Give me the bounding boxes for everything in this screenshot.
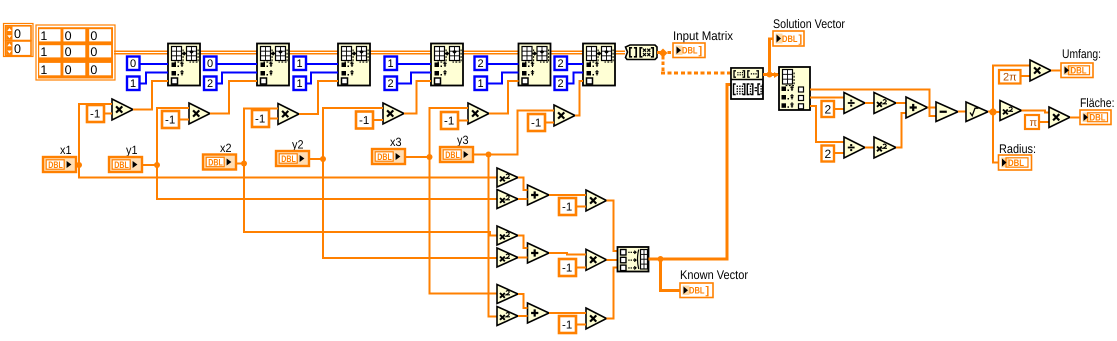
svg-text:1: 1 (297, 58, 303, 70)
x-squared node g2 bottom (497, 248, 518, 267)
svg-text:2: 2 (558, 58, 564, 70)
svg-text:0: 0 (130, 58, 136, 70)
svg-text:-1: -1 (562, 320, 572, 332)
svg-text:0: 0 (90, 29, 97, 43)
Replace Array Subset node 4 (431, 44, 463, 86)
divide node 1 (844, 93, 865, 114)
multiply node top row (3) (278, 104, 299, 125)
junction known vector (658, 256, 664, 262)
wire x2 bottom to add g3 (518, 315, 528, 317)
multiply node Umfang (1030, 60, 1051, 81)
svg-text:-1: -1 (562, 263, 572, 275)
svg-text:-1: -1 (165, 115, 175, 127)
wire 2pi to multiply (1021, 75, 1031, 77)
wire index out3 to divide2 (810, 106, 844, 142)
wire x3 out (405, 156, 430, 158)
svg-text:0: 0 (65, 63, 72, 77)
constant 2 (lower) (822, 146, 835, 162)
indicator Radius (DBL) (999, 155, 1032, 170)
wire index 4 bottom (397, 73, 431, 84)
svg-text:x2: x2 (220, 141, 232, 155)
control y1 (DBL) (109, 157, 142, 172)
wire index 1 bottom (140, 73, 169, 84)
wire y3 out (473, 154, 489, 156)
wire pi to multiply (1039, 121, 1049, 123)
svg-text:DBL: DBL (114, 160, 129, 171)
Build Array node (618, 247, 649, 272)
multiply node Flaeche (1049, 107, 1070, 128)
wire add to multiply g2 (549, 253, 586, 255)
I32 constant 2 (col index 2) (204, 77, 217, 91)
svg-text:-1: -1 (255, 114, 265, 126)
I32 constant 2 (col index 6) (555, 77, 568, 91)
svg-text:y2: y2 (292, 138, 304, 152)
Array To Matrix node (626, 45, 658, 60)
I32 constant 1 (row index 3) (294, 57, 307, 71)
wire index 3 bottom (306, 73, 338, 84)
label y3 (457, 133, 469, 147)
svg-text:x1: x1 (60, 143, 72, 157)
I32 constant 2 (row index 6) (555, 57, 568, 71)
junction matrix wire (diamond) (659, 49, 668, 58)
divide node 2 (844, 137, 865, 158)
x-squared node g2 top (497, 226, 518, 245)
x-squared node g1 top (497, 168, 518, 187)
wire x2 bottom to add g2 (518, 257, 528, 259)
constant 2 (upper) (822, 101, 835, 117)
wire y1 up to multiply (157, 108, 189, 165)
x-squared node g3 top (497, 285, 518, 304)
multiply node top row (2) (189, 103, 210, 124)
I32 constant 1 (col index 3) (294, 77, 307, 91)
svg-text:DBL: DBL (281, 154, 296, 165)
wire index 1 top (140, 63, 169, 65)
indicator Known Vector (DBL array) (680, 283, 713, 298)
wire -1 to multiply g1 (576, 206, 586, 208)
svg-text:DBL: DBL (1071, 66, 1087, 77)
svg-text:1: 1 (40, 63, 47, 77)
svg-text:-1: -1 (444, 116, 454, 128)
label x2 (220, 141, 232, 155)
svg-text:y1: y1 (126, 143, 138, 157)
svg-text:-1: -1 (562, 202, 572, 214)
wire x2 bottom to add g1 (518, 198, 528, 200)
svg-text:Fläche:: Fläche: (1080, 96, 1115, 110)
svg-text:0: 0 (65, 45, 72, 59)
svg-text:DBL: DBL (782, 34, 798, 45)
junction radius (989, 108, 996, 115)
wire x2 down to square row (244, 164, 497, 236)
svg-text:DBL: DBL (377, 152, 392, 163)
wire index 2 top (217, 63, 258, 65)
label Radius (999, 142, 1036, 156)
svg-text:2: 2 (558, 78, 564, 90)
wire x3 up to multiply (430, 108, 469, 157)
I32 constant 0 (row index 2) (204, 57, 217, 71)
svg-text:x3: x3 (390, 135, 402, 149)
svg-text:0: 0 (14, 42, 21, 56)
svg-text:1: 1 (388, 58, 394, 70)
svg-text:-1: -1 (359, 115, 369, 127)
indicator Flaeche (DBL) (1080, 110, 1111, 125)
wire divide2 to x2 (865, 147, 874, 149)
multiply node top row (5) (468, 103, 489, 124)
svg-text:0: 0 (14, 27, 21, 41)
control x2 (DBL) (203, 155, 236, 170)
wire divide1 to x2 (865, 102, 874, 104)
Replace Array Subset node 6 (583, 44, 615, 86)
multiply node top row (4) (383, 103, 404, 124)
svg-text:]: ] (699, 45, 703, 57)
label Solution Vector (773, 17, 845, 31)
svg-text:2: 2 (388, 78, 394, 90)
wire y1 out (142, 164, 158, 166)
wire index 3 top (306, 63, 338, 65)
wire radius to x2 (997, 111, 1000, 113)
constant -1 g3 (559, 316, 576, 333)
array index control (4, 24, 34, 57)
I32 constant 0 (row index 1) (127, 57, 140, 71)
wire x1 up to multiply (79, 104, 112, 165)
add node right (906, 97, 928, 118)
junction x1 (76, 162, 82, 168)
constant pi (1025, 115, 1039, 129)
junction y2 (320, 156, 326, 162)
wire to Known Vector indicator (661, 259, 681, 291)
multiply node top row (1) (112, 99, 133, 120)
junction y1 (154, 162, 160, 168)
junction x2 (241, 161, 247, 167)
wire x2 top to add g1 (518, 178, 528, 191)
svg-text:Known Vector: Known Vector (680, 268, 748, 282)
wire -1 to multiply 5 (458, 120, 468, 122)
I32 constant 1 (row index 4) (385, 57, 398, 71)
label Umfang (1062, 47, 1101, 61)
svg-text:π: π (1030, 117, 1038, 129)
wire x1 out (76, 164, 80, 166)
svg-text:1: 1 (40, 45, 47, 59)
svg-text:1: 1 (297, 78, 303, 90)
Replace Array Subset node 2 (257, 44, 289, 86)
svg-text:DBL: DBL (689, 286, 705, 297)
wire up to Solution Vector indicator (770, 39, 774, 75)
constant -1 (1) (87, 105, 104, 122)
label Flaeche (1080, 96, 1115, 110)
wire y2 out (309, 158, 324, 160)
indicator Solution Vector (DBL array) (773, 31, 804, 46)
wire x2 up to multiply (244, 109, 278, 164)
svg-text:2: 2 (207, 78, 213, 90)
wire 2 to divide1 (834, 108, 844, 110)
wire -1 to multiply g2 (576, 267, 586, 269)
svg-text:-1: -1 (531, 118, 541, 130)
svg-text:1: 1 (478, 78, 484, 90)
control y2 (DBL) (276, 151, 309, 166)
svg-text:DBL: DBL (48, 160, 63, 171)
wire -1 to multiply 6 (545, 122, 554, 124)
wire multiply 2 output to node 2 element input (210, 81, 257, 114)
wire multiply 3 output to node 3 element input (299, 81, 338, 114)
wire index 6 bottom (567, 73, 583, 84)
multiply node g2 (586, 249, 607, 270)
I32 constant 1 (col index 5) (475, 77, 488, 91)
multiply node top row (6) (554, 105, 575, 126)
wire x1 down to square row (79, 165, 497, 178)
wire x2 out (236, 163, 245, 165)
wire -1 to multiply 3 (269, 118, 278, 120)
Replace Array Subset node 3 (338, 44, 370, 86)
svg-text:DBL: DBL (1090, 113, 1106, 124)
wire x2b to add (896, 113, 906, 148)
wire -1 to multiply 4 (373, 119, 383, 121)
x-squared node g1 bottom (497, 190, 518, 209)
wire g3 multiply to build array (607, 267, 618, 318)
wire y3 up to multiply 6 (489, 110, 555, 154)
svg-text:0: 0 (65, 29, 72, 43)
Index Array node (779, 67, 810, 110)
I32 constant 2 (col index 4) (385, 77, 398, 91)
svg-text:y3: y3 (457, 133, 469, 147)
svg-text:DBL: DBL (208, 157, 223, 168)
wire y3 down to square row (489, 155, 498, 317)
wire index 2 bottom (217, 73, 258, 84)
svg-text:Solution Vector: Solution Vector (773, 17, 845, 31)
control y3 (DBL) (440, 147, 473, 162)
junction x3 (427, 154, 433, 160)
constant -1 (5) (441, 112, 458, 129)
label x3 (390, 135, 402, 149)
svg-text:Radius:: Radius: (999, 142, 1036, 156)
svg-text:DBL: DBL (1008, 158, 1024, 169)
wire 2D array (double line) (114, 51, 625, 54)
indicator Umfang (DBL) (1061, 63, 1093, 78)
wire radius up to multiply (993, 65, 1030, 112)
label Input Matrix (673, 29, 734, 43)
wire add to multiply g3 (549, 312, 586, 314)
wire matrix to Input Matrix indicator (657, 51, 673, 54)
sqrt node (966, 102, 988, 122)
add node g2 (528, 243, 550, 263)
wire -1 to multiply 1 (104, 113, 112, 115)
svg-text:2: 2 (478, 58, 484, 70)
constant -1 g2 (559, 259, 576, 276)
wire x2 top to add g3 (518, 294, 528, 308)
constant -1 (2) (162, 111, 179, 128)
wire solution vector out (763, 73, 779, 76)
svg-text:1: 1 (130, 78, 136, 90)
wire sqrt to junction (988, 111, 990, 113)
multiply node g1 (586, 190, 607, 211)
constant 2pi (999, 70, 1021, 84)
wire -1 to multiply 2 (179, 119, 189, 121)
wire index out2 to divide1 (810, 97, 844, 99)
svg-text:1: 1 (40, 29, 47, 43)
wire index 5 top (487, 63, 519, 65)
svg-text:0: 0 (90, 63, 97, 77)
constant -1 (3) (252, 110, 269, 127)
wire x2 top to add g2 (518, 236, 528, 249)
multiply node g3 (586, 308, 607, 329)
wire x2a to add (896, 102, 906, 104)
svg-text:Umfang:: Umfang: (1062, 47, 1101, 61)
wire index out1 to subtract (810, 90, 936, 117)
wire multiply 6 output to node 6 element input (575, 81, 583, 116)
svg-text:DBL: DBL (682, 46, 698, 57)
I32 constant 2 (row index 5) (475, 57, 488, 71)
svg-text:DBL: DBL (445, 150, 460, 161)
wire radius down to indicator (993, 112, 999, 163)
svg-text:]: ] (706, 285, 710, 297)
label y2 (292, 138, 304, 152)
wire subtract to sqrt (958, 111, 966, 113)
wire index 6 top (567, 63, 583, 65)
junction solution vector (767, 72, 773, 78)
wire x2 to multiply Flaeche (1022, 111, 1050, 113)
junction y3 (486, 152, 492, 158)
x-squared node upper (874, 93, 896, 114)
wire known vector (1D array) (649, 85, 732, 260)
Replace Array Subset node 5 (519, 44, 551, 86)
svg-text:0: 0 (90, 45, 97, 59)
x-squared node g3 bottom (497, 307, 518, 326)
Solve Linear Equations node (731, 68, 763, 99)
constant -1 (6) (528, 114, 545, 131)
control x1 (DBL) (43, 157, 76, 172)
wire g1 multiply to build array (607, 201, 618, 251)
wire x3 down to square row (430, 157, 498, 294)
label y1 (126, 143, 138, 157)
wire to Flaeche indicator (1070, 116, 1080, 118)
wire add to multiply g1 (549, 194, 586, 196)
wire matrix down-right to solve node (661, 56, 731, 73)
wire y2 down to square row (323, 159, 497, 258)
wire to Umfang indicator (1051, 70, 1061, 72)
add node g1 (528, 185, 550, 205)
x-squared node radius (1000, 101, 1022, 121)
wire y2 up to multiply (323, 108, 383, 159)
svg-text:0: 0 (207, 58, 213, 70)
svg-text:2: 2 (825, 103, 832, 117)
wire multiply 4 output to node 4 element input (404, 81, 431, 114)
control x3 (DBL) (372, 149, 405, 164)
svg-text:]: ] (799, 34, 803, 46)
2D array constant 3x3 (1,0,0 rows) (36, 25, 115, 80)
wire index 5 bottom (487, 73, 519, 84)
x-squared node lower (874, 137, 896, 158)
constant -1 (4) (356, 112, 373, 129)
I32 constant 1 (col index 1) (127, 77, 140, 91)
svg-text:Input Matrix: Input Matrix (673, 29, 734, 43)
wire y1 down to square row (157, 165, 497, 199)
svg-text:2: 2 (825, 147, 832, 161)
svg-text:-1: -1 (90, 109, 100, 121)
Replace Array Subset node 1 (168, 44, 200, 86)
subtract node (936, 102, 958, 122)
wire multiply 1 output to node 1 element input (133, 81, 168, 110)
wire multiply 5 output to node 5 element input (489, 81, 519, 114)
wire index 4 top (397, 63, 431, 65)
svg-text:2π: 2π (1003, 72, 1017, 84)
wire g2 multiply to build array (607, 259, 618, 261)
constant -1 g1 (559, 198, 576, 215)
wire add to subtract (928, 107, 937, 109)
wire -1 to multiply g3 (576, 324, 586, 326)
label Known Vector (680, 268, 748, 282)
label x1 (60, 143, 72, 157)
indicator Input Matrix (DBL matrix) (673, 43, 705, 58)
wire input to index array (774, 72, 779, 78)
wire 2 to divide2 (834, 152, 844, 154)
add node g3 (528, 303, 550, 323)
